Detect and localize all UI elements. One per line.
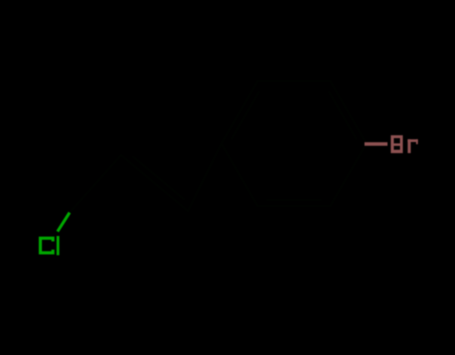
bond C3 to Cl green half bbox=[58, 213, 70, 232]
Br label letter r arm bbox=[408, 139, 418, 142]
bond C3 to Cl dark half bbox=[70, 192, 88, 213]
ring inner double bond upper-right bbox=[329, 92, 356, 139]
bond C1=C2 inner line bbox=[133, 157, 184, 200]
bond ring to C1 bbox=[188, 144, 222, 212]
bond C1=C2 main bbox=[121, 155, 188, 211]
bond C2 to C3 bbox=[88, 155, 121, 192]
Cl label letter l bbox=[57, 236, 60, 255]
Br label letter r stem bbox=[408, 139, 411, 153]
ring inner double bond bottom bbox=[267, 199, 321, 201]
Cl label letter C bbox=[39, 237, 55, 255]
Br label letter r arm tick bbox=[416, 139, 418, 144]
bond ring to Br red half bbox=[365, 142, 388, 146]
Br label letter B bbox=[391, 135, 403, 153]
ring inner double bond left bbox=[232, 92, 259, 139]
benzene ring outline bbox=[222, 81, 367, 207]
